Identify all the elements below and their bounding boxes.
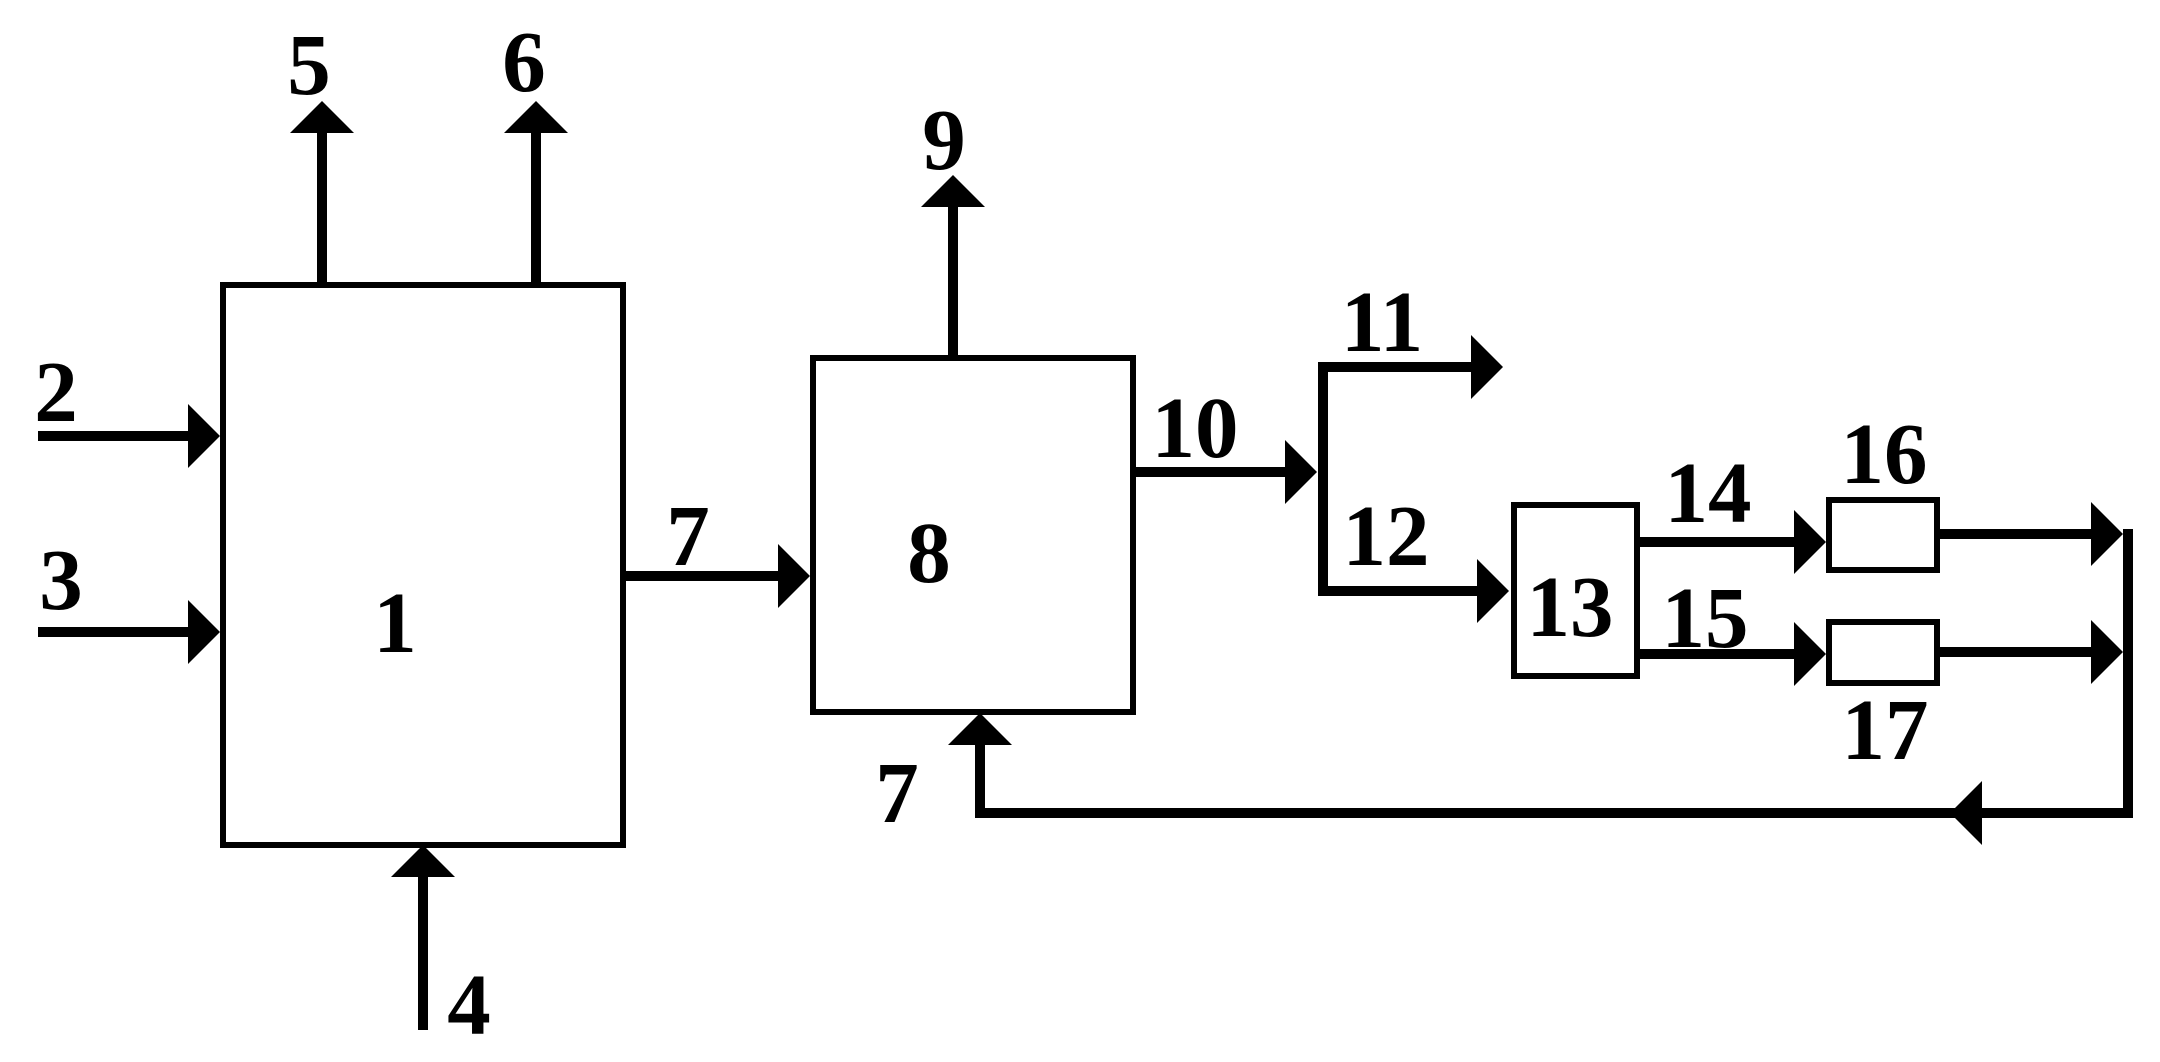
svg-text:16: 16 [1841,405,1928,502]
svg-text:15: 15 [1662,569,1749,666]
svg-text:2: 2 [34,343,78,440]
svg-text:6: 6 [502,13,546,110]
svg-text:11: 11 [1341,273,1423,370]
svg-text:5: 5 [287,16,331,113]
svg-text:12: 12 [1343,487,1430,584]
svg-text:14: 14 [1665,444,1752,541]
svg-text:9: 9 [922,91,966,188]
svg-text:13: 13 [1527,558,1614,655]
svg-text:7: 7 [875,744,919,841]
svg-text:8: 8 [907,504,951,601]
svg-text:7: 7 [666,487,710,584]
svg-text:17: 17 [1842,681,1929,778]
svg-text:4: 4 [447,956,491,1053]
svg-text:3: 3 [39,531,83,628]
svg-text:10: 10 [1152,379,1239,476]
svg-text:1: 1 [373,574,417,671]
